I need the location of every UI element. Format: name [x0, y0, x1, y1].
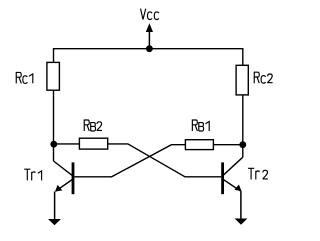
wire Tr1 emitter to ground [54, 192, 56, 220]
Tr2 emitter diagonal [223, 179, 241, 191]
label RB1 [192, 120, 209, 131]
wire Tr1 base to RB1 (cross wire) [74, 145, 185, 177]
wire left junction to RB2 [54, 143, 80, 145]
Vcc power symbol arrow [146, 23, 153, 48]
wire RB1 to right junction [213, 144, 242, 146]
transistor Tr2 [223, 157, 243, 194]
node: right collector junction dot [239, 141, 246, 148]
resistor RB1 [185, 140, 213, 150]
Tr2 base bar [221, 162, 224, 194]
resistor RB2 [79, 138, 107, 149]
label Tr2 [248, 168, 268, 179]
node: Vcc junction dot [146, 45, 153, 52]
label Rc2 [254, 72, 272, 83]
ground (arrow) right [235, 219, 248, 225]
label Rc1 [16, 72, 33, 83]
Tr1 emitter diagonal [56, 179, 73, 191]
wire Rc2 bottom to Tr2 collector corner [242, 95, 244, 157]
label Vcc [141, 9, 159, 20]
Tr1 base bar [72, 162, 75, 194]
resistor Rc1 [47, 62, 60, 90]
Tr1 emitter arrowhead [55, 185, 62, 192]
wire Tr2 emitter to ground [240, 191, 242, 219]
wire RB2 to Tr2 base (cross wire) [108, 144, 222, 177]
transistor Tr1 [54, 161, 74, 194]
Tr2 emitter arrowhead [234, 185, 241, 192]
ground (arrow) left [48, 219, 61, 225]
Tr2 collector diagonal [223, 157, 243, 176]
resistor Rc2 [236, 65, 248, 95]
label RB2 [84, 120, 102, 131]
Tr1 collector diagonal [54, 161, 74, 176]
label Tr1 [24, 169, 41, 180]
wire top rail [54, 49, 243, 66]
wire Rc1 bottom to Tr1 collector corner [53, 90, 55, 161]
node: left collector junction dot [50, 141, 57, 148]
